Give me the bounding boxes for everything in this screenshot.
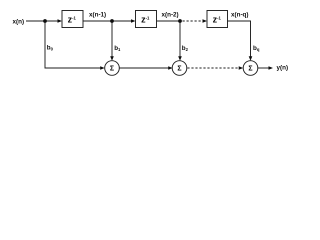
wire delay U2 out to junction J3 xyxy=(157,20,181,22)
svg-text:x(n-2): x(n-2) xyxy=(162,12,179,19)
svg-text:x(n-1): x(n-1) xyxy=(89,12,106,19)
wire dashed summer S2 to summer S3 xyxy=(187,67,239,69)
junction J3 xyxy=(178,19,182,23)
junction J2 xyxy=(110,19,114,23)
svg-text:x(n-q): x(n-q) xyxy=(231,12,249,19)
arrowhead b2 into summer S2 top xyxy=(178,56,182,61)
wire input x(n) to delay U1 xyxy=(26,20,59,22)
wire dashed J3 to delay U3 xyxy=(183,20,204,22)
arrowhead summer S1 into summer S2 xyxy=(168,66,173,70)
wire summer S3 to output y(n) xyxy=(258,67,270,69)
arrowhead summer S2 into summer S3 xyxy=(239,66,244,70)
arrowhead b1 into summer S1 top xyxy=(110,56,114,61)
arrowhead output y(n) xyxy=(269,66,274,70)
arrowhead into delay U1 xyxy=(58,19,63,23)
svg-text:Σ: Σ xyxy=(177,65,181,72)
svg-text:x(n): x(n) xyxy=(13,19,25,26)
svg-text:Σ: Σ xyxy=(110,65,114,72)
arrowhead into delay U3 xyxy=(203,19,208,23)
wire junction J3 down to summer S2 xyxy=(179,21,181,57)
delay block U1 xyxy=(62,11,83,28)
summer S2 xyxy=(172,61,187,76)
svg-text:Σ: Σ xyxy=(248,65,252,72)
wire delay U3 out corner down to summer S3 xyxy=(228,21,251,57)
wire delay U1 out to delay U2 xyxy=(83,20,132,22)
svg-text:y(n): y(n) xyxy=(277,65,289,72)
wire junction J1 to b0 path down xyxy=(45,21,101,68)
arrowhead b0 into summer S1 left xyxy=(100,66,105,70)
wire junction J2 down to summer S1 xyxy=(111,21,113,57)
arrowhead into delay U2 xyxy=(131,19,136,23)
junction J1 xyxy=(43,19,47,23)
delay block U3 xyxy=(207,11,228,28)
delay block U2 xyxy=(136,11,157,28)
wire summer S1 to summer S2 xyxy=(119,67,169,69)
summer S1 xyxy=(105,61,120,76)
summer S3 xyxy=(243,61,258,76)
arrowhead bq into summer S3 top xyxy=(249,56,253,61)
